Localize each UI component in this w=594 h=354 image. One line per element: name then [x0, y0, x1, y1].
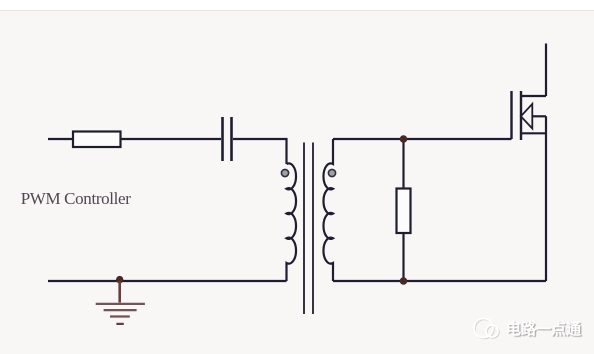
svg-text:PWM Controller: PWM Controller — [21, 189, 132, 208]
